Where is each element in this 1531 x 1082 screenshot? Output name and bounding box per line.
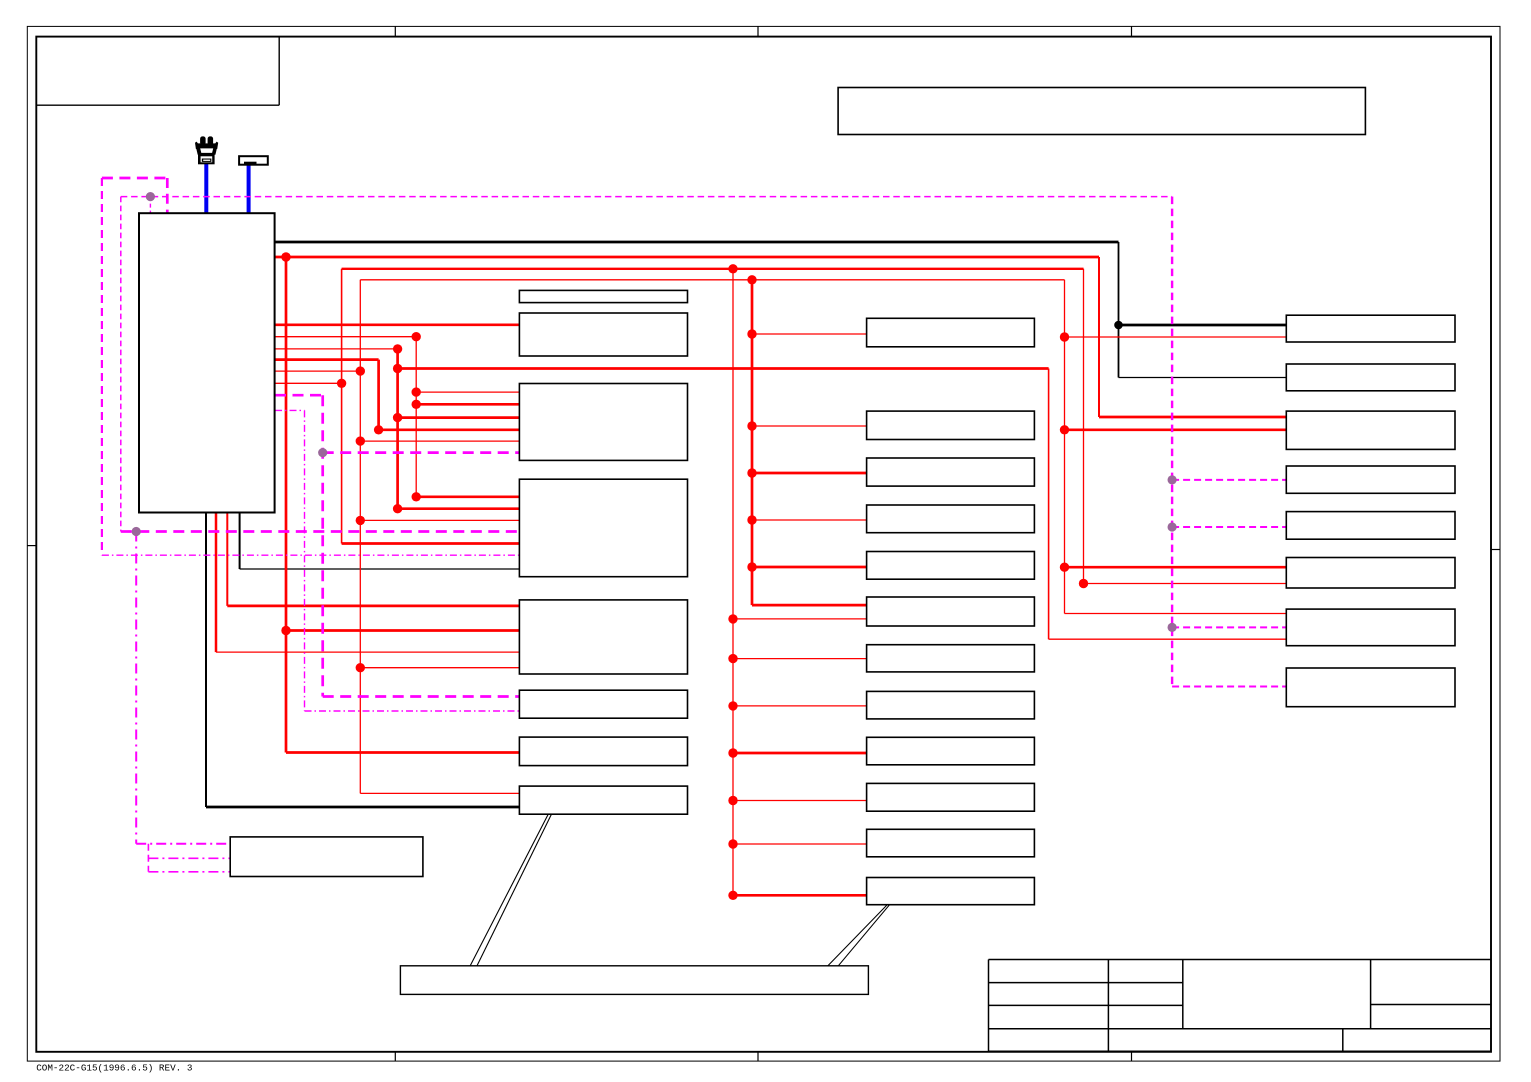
svg-text:COM-22C-G15(1996.6.5) REV. 3: COM-22C-G15(1996.6.5) REV. 3 — [36, 1063, 192, 1074]
